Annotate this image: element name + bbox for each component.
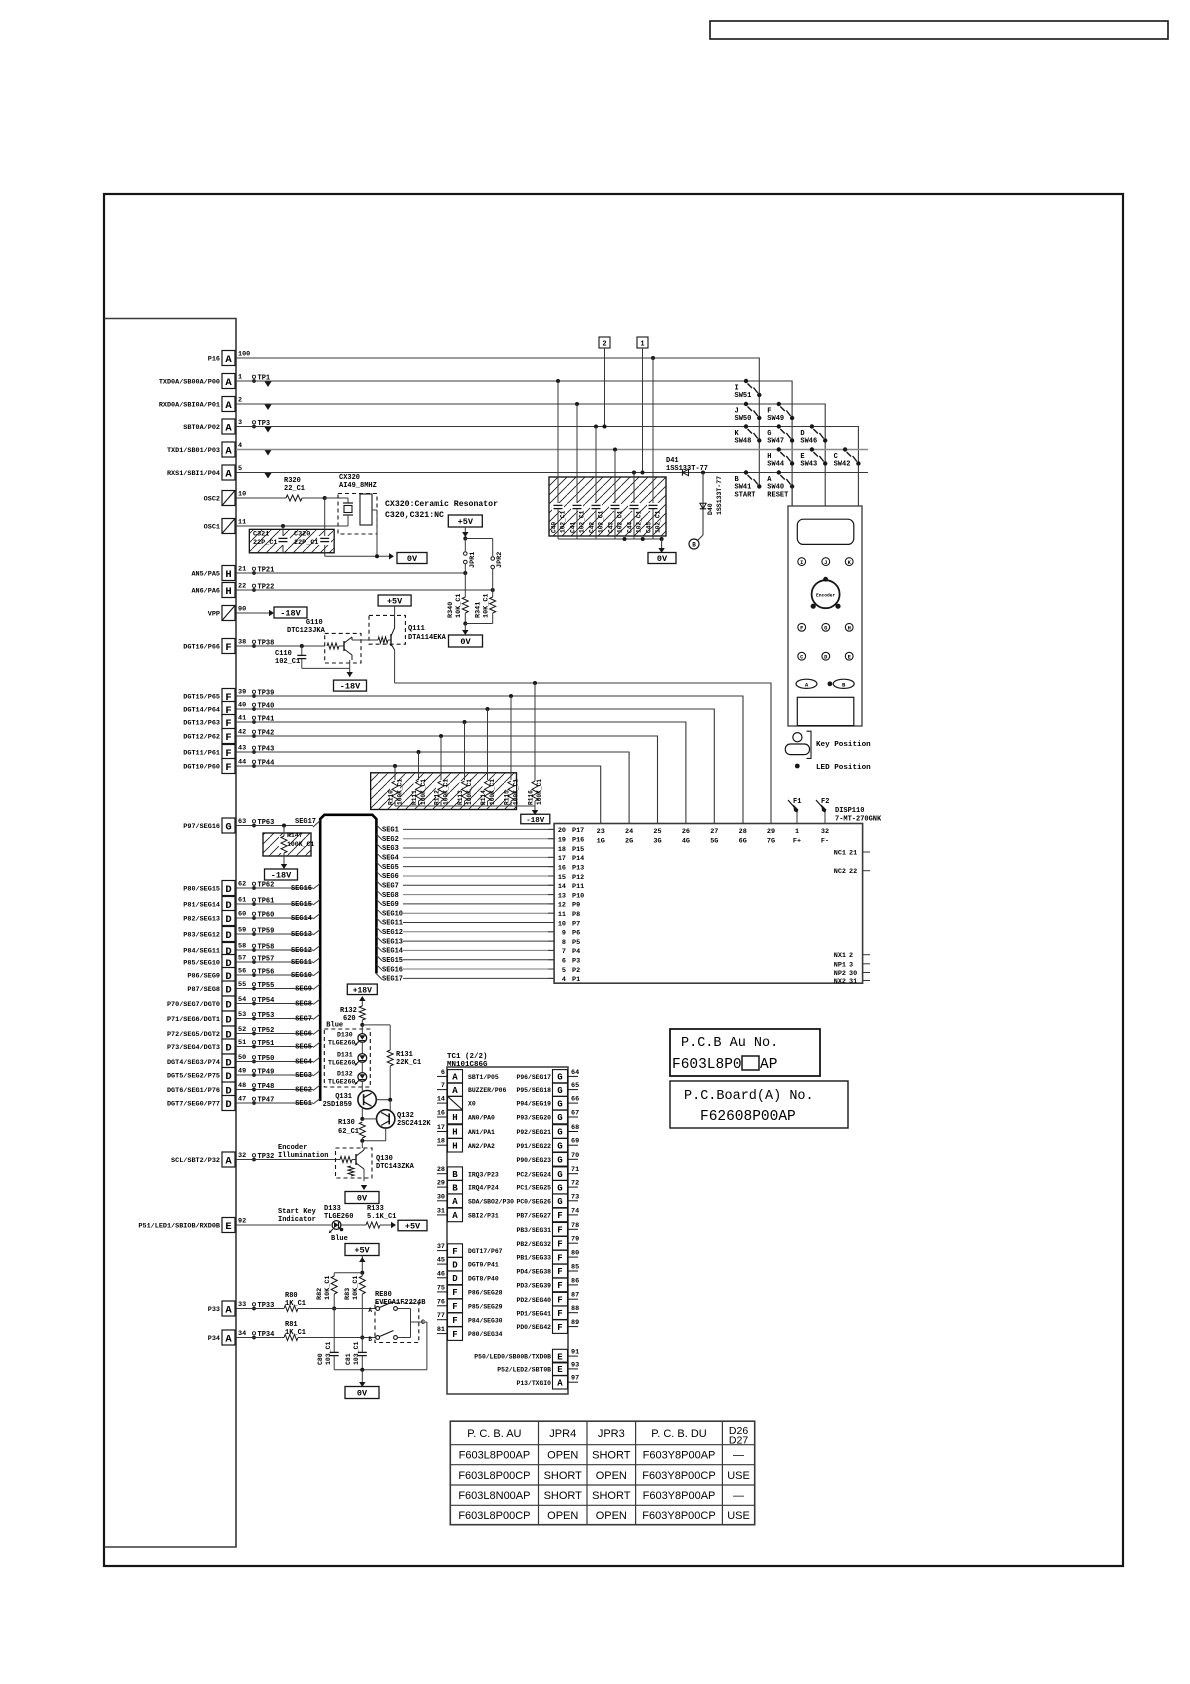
svg-text:AN0/PA0: AN0/PA0 (468, 1115, 495, 1122)
label start key indicator (278, 1208, 317, 1224)
svg-text:—: — (733, 1490, 744, 1502)
svg-text:P2: P2 (572, 967, 580, 975)
svg-text:32: 32 (238, 1152, 246, 1160)
svg-text:7-MT-270GNK: 7-MT-270GNK (835, 816, 882, 824)
svg-text:P. C. B. AU: P. C. B. AU (467, 1428, 521, 1440)
wire SEG15 into bus trunk (236, 900, 320, 910)
svg-text:2: 2 (849, 952, 853, 960)
wire SEG11 into bus trunk (236, 958, 320, 968)
svg-text:P80/SEG15: P80/SEG15 (183, 886, 220, 894)
svg-text:-18V: -18V (340, 682, 361, 692)
wire SEG2 bus exit to display pin (376, 834, 554, 844)
svg-text:78: 78 (571, 1222, 579, 1230)
IC1 pin 62 P80/SEG15 (183, 881, 274, 896)
IC1 pin 53 P71/SEG6/DGT1 (167, 1011, 274, 1026)
wire SEG14 into bus trunk (236, 914, 320, 924)
svg-text:R113: R113 (457, 790, 464, 805)
IC1 pin 2 RXD0A/SBI0A/P01 (159, 397, 242, 412)
power +5V box start key (398, 1220, 427, 1231)
svg-text:56: 56 (238, 968, 246, 976)
svg-text:F603L8P00AP: F603L8P00AP (459, 1450, 531, 1462)
IC1 pin 60 P82/SEG13 (183, 911, 274, 926)
power -18V box at VPP (274, 607, 307, 618)
svg-text:41: 41 (238, 715, 246, 723)
svg-text:Indicator: Indicator (278, 1216, 316, 1224)
svg-text:AN1/PA1: AN1/PA1 (468, 1129, 495, 1136)
svg-text:SEG2: SEG2 (382, 836, 399, 844)
svg-text:89: 89 (571, 1319, 579, 1327)
svg-text:P12: P12 (572, 874, 584, 882)
svg-text:P94/SEG19: P94/SEG19 (516, 1101, 551, 1108)
wire P00 row to matrix column 2 (236, 381, 792, 506)
svg-text:D: D (225, 1099, 231, 1111)
svg-text:P71/SEG6/DGT1: P71/SEG6/DGT1 (167, 1016, 220, 1024)
svg-text:C81: C81 (345, 1353, 352, 1365)
intersheet wire 2 (599, 337, 610, 429)
jumper JPR2 (465, 539, 504, 591)
svg-text:G: G (824, 626, 827, 632)
svg-text:43: 43 (238, 745, 246, 753)
IC1 pin 1 TXD0A/SB00A/P00 (159, 374, 270, 389)
svg-text:102_C1: 102_C1 (636, 510, 643, 533)
svg-text:H: H (848, 626, 851, 632)
svg-text:73: 73 (571, 1193, 579, 1201)
svg-text:F: F (800, 626, 803, 632)
capacitor bank C40-C45 (549, 356, 666, 553)
svg-text:61: 61 (238, 897, 246, 905)
svg-text:P.C.B Au No.: P.C.B Au No. (681, 1036, 778, 1051)
svg-text:F: F (557, 1211, 562, 1221)
legend key position (785, 731, 871, 758)
svg-text:OPEN: OPEN (547, 1450, 578, 1462)
ground rail to 0V under encoder (334, 1368, 427, 1387)
svg-text:G: G (557, 1128, 562, 1138)
svg-text:D: D (225, 930, 231, 942)
svg-text:14: 14 (437, 1096, 445, 1104)
svg-text:P5: P5 (572, 939, 580, 947)
svg-text:A: A (368, 1307, 372, 1314)
svg-text:SW43: SW43 (800, 461, 817, 469)
svg-text:74: 74 (571, 1207, 579, 1215)
svg-text:90: 90 (238, 606, 246, 614)
svg-text:SHORT: SHORT (592, 1490, 631, 1502)
svg-text:P85/SEG29: P85/SEG29 (468, 1303, 503, 1310)
resistor R133 (366, 1205, 396, 1228)
svg-text:P70/SEG7/DGT0: P70/SEG7/DGT0 (167, 1001, 220, 1009)
TC1 pin 71 PC2/SEG24 (516, 1166, 579, 1180)
svg-text:P3: P3 (572, 958, 580, 966)
svg-text:C42: C42 (589, 522, 596, 533)
svg-text:55: 55 (238, 981, 246, 989)
svg-text:9: 9 (562, 930, 566, 938)
wire SEG10 into bus trunk (236, 971, 320, 981)
svg-text:PB1/SEG33: PB1/SEG33 (516, 1255, 551, 1262)
svg-text:100K_C1: 100K_C1 (420, 779, 427, 805)
power +18V box (347, 984, 377, 995)
svg-text:50: 50 (238, 1054, 246, 1062)
wire SEG16 into bus trunk (236, 884, 320, 894)
svg-text:0V: 0V (460, 637, 471, 647)
svg-text:13: 13 (558, 892, 566, 900)
svg-text:62: 62 (238, 881, 246, 889)
svg-text:70: 70 (571, 1152, 579, 1160)
svg-text:0V: 0V (357, 1194, 368, 1204)
svg-text:F: F (557, 1281, 562, 1291)
svg-text:22: 22 (238, 583, 246, 591)
svg-text:PD4/SEG38: PD4/SEG38 (516, 1269, 551, 1276)
svg-text:G: G (557, 1183, 562, 1193)
wire SEG13 into bus trunk (236, 930, 320, 940)
IC1 pin 92 P51/LED1/SBIOB/RXD0B (138, 1218, 246, 1233)
svg-text:7: 7 (562, 948, 566, 956)
svg-text:44: 44 (238, 759, 246, 767)
svg-text:D: D (225, 1042, 231, 1054)
svg-text:Q111: Q111 (408, 625, 425, 633)
svg-text:DTC143ZKA: DTC143ZKA (376, 1163, 415, 1171)
svg-text:SEG16: SEG16 (382, 966, 403, 974)
svg-text:SEG5: SEG5 (295, 1044, 312, 1052)
wire AN5/PA5 row (236, 572, 465, 574)
svg-text:P13: P13 (572, 864, 584, 872)
svg-text:Q132: Q132 (397, 1112, 414, 1120)
svg-text:F: F (557, 1295, 562, 1305)
svg-text:18: 18 (558, 846, 566, 854)
IC1 pin 59 P83/SEG12 (183, 927, 274, 942)
svg-text:100K_C1: 100K_C1 (287, 841, 314, 848)
IC1 pin 49 DGT5/SEG2/P75 (167, 1068, 274, 1083)
svg-text:A: A (452, 1073, 458, 1083)
IC1 pin 55 P87/SEG8 (187, 981, 274, 996)
svg-text:6G: 6G (739, 838, 747, 846)
svg-text:SCL/SBT2/P32: SCL/SBT2/P32 (171, 1157, 220, 1165)
svg-text:47: 47 (238, 1096, 246, 1104)
LEDs D130 D131 D132 blue (324, 1022, 370, 1091)
resistor R132 (340, 996, 366, 1027)
svg-text:SHORT: SHORT (544, 1490, 583, 1502)
switch SW40 RESET (767, 470, 794, 499)
display pin rows P1-P17 (548, 827, 584, 984)
IC1 pin 58 P84/SEG11 (183, 943, 274, 958)
svg-text:A: A (225, 445, 232, 457)
svg-text:4: 4 (562, 976, 566, 984)
svg-text:PB2/SEG32: PB2/SEG32 (516, 1241, 551, 1248)
IC1 pin 61 P81/SEG14 (183, 897, 274, 912)
svg-text:F+: F+ (793, 838, 801, 846)
transistor G110 DTC123JKA (287, 619, 361, 668)
svg-text:G: G (557, 1156, 562, 1166)
svg-text:620: 620 (343, 1015, 356, 1023)
svg-text:P15: P15 (572, 846, 584, 854)
svg-text:DGT7/SEG0/P77: DGT7/SEG0/P77 (167, 1101, 220, 1109)
wire P02 row to matrix column 4 (236, 427, 858, 507)
svg-text:26: 26 (682, 828, 690, 836)
svg-text:P6: P6 (572, 930, 580, 938)
svg-text:5.1K_C1: 5.1K_C1 (367, 1213, 396, 1221)
wire P51 row (236, 1224, 331, 1226)
IC1 pin 39 DGT15/P65 (183, 689, 274, 704)
svg-text:65: 65 (571, 1082, 579, 1090)
svg-text:F603L8P00CP: F603L8P00CP (458, 1470, 530, 1482)
svg-text:100K_C1: 100K_C1 (397, 779, 404, 805)
IC1 pin 51 P73/SEG4/DGT3 (167, 1039, 274, 1054)
svg-text:H: H (225, 569, 231, 581)
svg-text:NX1: NX1 (834, 952, 846, 960)
svg-text:SW44: SW44 (767, 461, 784, 469)
wire P16 row to matrix column 1 (236, 358, 759, 487)
TC1 pin 6 SBT1/P05 (437, 1069, 499, 1083)
svg-text:SW41: SW41 (735, 484, 752, 492)
svg-text:76: 76 (437, 1298, 445, 1306)
svg-text:D: D (225, 984, 231, 996)
svg-text:P50/LED0/SB00B/TXD0B: P50/LED0/SB00B/TXD0B (474, 1354, 551, 1361)
svg-text:SEG1: SEG1 (382, 827, 399, 835)
svg-text:F603L8P0: F603L8P0 (672, 1057, 742, 1073)
svg-text:IRQ4/P24: IRQ4/P24 (468, 1185, 499, 1192)
svg-text:29: 29 (767, 828, 775, 836)
svg-text:R320: R320 (284, 477, 301, 485)
svg-text:34: 34 (238, 1330, 246, 1338)
TC1 pin 74 PB7/SEG27 (516, 1207, 579, 1221)
resistor R131 (362, 1025, 421, 1100)
svg-text:SEG15: SEG15 (382, 957, 403, 965)
svg-text:SW51: SW51 (735, 392, 752, 400)
wire DGT16 row (236, 645, 325, 647)
svg-text:7G: 7G (767, 838, 775, 846)
keypad rotary encoder (811, 577, 841, 609)
switch SW50 (735, 402, 762, 423)
svg-text:R115: R115 (504, 790, 511, 805)
ground 0V box near resonator (397, 553, 427, 564)
svg-text:SEG1: SEG1 (295, 1100, 312, 1108)
svg-text:P52/LED2/SBT0B: P52/LED2/SBT0B (497, 1367, 551, 1374)
svg-text:PC2/SEG24: PC2/SEG24 (516, 1171, 551, 1178)
svg-text:17: 17 (437, 1124, 445, 1132)
svg-text:G: G (557, 1197, 562, 1207)
svg-text:SHORT: SHORT (592, 1450, 631, 1462)
svg-text:SHORT: SHORT (544, 1470, 583, 1482)
svg-text:OPEN: OPEN (596, 1470, 627, 1482)
label P.C.Board(A) No. box (670, 1081, 848, 1128)
wire OSC1 row (236, 525, 348, 527)
svg-text:OSC2: OSC2 (204, 496, 220, 504)
svg-text:F603Y8P00AP: F603Y8P00AP (643, 1490, 716, 1502)
wire SEG15 bus exit to display pin (376, 955, 554, 965)
svg-text:F: F (557, 1253, 562, 1263)
svg-text:P16: P16 (208, 356, 220, 364)
svg-text:93: 93 (571, 1361, 579, 1369)
svg-text:P16: P16 (572, 837, 584, 845)
svg-text:SEG3: SEG3 (295, 1072, 312, 1080)
svg-text:11: 11 (558, 911, 566, 919)
svg-text:P82/SEG13: P82/SEG13 (183, 916, 220, 924)
page border frame (104, 194, 1123, 1566)
svg-text:8: 8 (562, 939, 566, 947)
wire SEG1 into bus trunk (236, 1099, 320, 1109)
svg-text:P14: P14 (572, 855, 584, 863)
svg-text:P4: P4 (572, 948, 580, 956)
svg-text:JPR1: JPR1 (469, 552, 477, 568)
label encoder illumination (278, 1144, 328, 1160)
transistor Q111 DTA114EKA (352, 606, 447, 683)
svg-text:F: F (452, 1330, 457, 1340)
label DISP110 7-MT-270GNK (835, 807, 882, 824)
svg-text:SEG17: SEG17 (295, 818, 316, 826)
svg-text:A: A (225, 1155, 232, 1167)
wire SEG5 into bus trunk (236, 1042, 320, 1052)
svg-text:H: H (225, 586, 231, 598)
svg-text:67: 67 (571, 1110, 579, 1118)
svg-text:22P_C1: 22P_C1 (294, 539, 318, 547)
svg-text:P91/SEG22: P91/SEG22 (516, 1143, 551, 1150)
svg-text:86: 86 (571, 1277, 579, 1285)
net marker on pin 4 line (265, 450, 272, 456)
wire SEG9 into bus trunk (236, 984, 320, 994)
svg-text:P.C.Board(A) No.: P.C.Board(A) No. (684, 1089, 814, 1104)
wire SEG11 bus exit to display pin (376, 918, 554, 928)
svg-text:DGT4/SEG3/P74: DGT4/SEG3/P74 (167, 1059, 220, 1067)
keypad keys C D E (798, 652, 853, 660)
svg-text:SEG6: SEG6 (295, 1031, 312, 1039)
wire P01 row to matrix column 3 (236, 404, 825, 506)
svg-text:SEG12: SEG12 (382, 929, 403, 937)
resistor R340 (447, 573, 468, 626)
IC1 pin 63 P97/SEG16 (183, 818, 274, 833)
svg-text:PB7/SEG27: PB7/SEG27 (516, 1213, 551, 1220)
svg-text:SW40: SW40 (767, 484, 784, 492)
svg-text:PD3/SEG39: PD3/SEG39 (516, 1283, 551, 1290)
svg-text:53: 53 (238, 1011, 246, 1019)
keypad display window (797, 519, 854, 544)
wire SEG6 into bus trunk (236, 1029, 320, 1039)
svg-text:NP1: NP1 (834, 961, 846, 969)
svg-text:22P_C1: 22P_C1 (253, 539, 277, 547)
svg-text:Q130: Q130 (376, 1155, 393, 1163)
svg-text:SW46: SW46 (800, 438, 817, 446)
IC1 pin 10 OSC2 (204, 491, 247, 506)
legend LED position (795, 764, 871, 772)
wire VPP to -18V (236, 610, 274, 616)
svg-text:19: 19 (558, 837, 566, 845)
resistor R83 (344, 1273, 365, 1340)
LED D133 blue (324, 1205, 366, 1243)
svg-text:R133: R133 (367, 1205, 384, 1213)
svg-text:RXD0A/SBI0A/P01: RXD0A/SBI0A/P01 (159, 402, 220, 410)
svg-text:27: 27 (710, 828, 718, 836)
svg-text:DGT5/SEG2/P75: DGT5/SEG2/P75 (167, 1073, 220, 1081)
svg-text:29: 29 (437, 1180, 445, 1188)
capacitor C81 (345, 1338, 367, 1370)
svg-text:+18V: +18V (353, 986, 372, 995)
TC1 pin 66 P94/SEG19 (516, 1096, 579, 1110)
ground -18V box under G110 (347, 668, 353, 677)
svg-text:58: 58 (238, 943, 246, 951)
svg-text:OPEN: OPEN (547, 1510, 578, 1522)
svg-text:P97/SEG16: P97/SEG16 (183, 823, 220, 831)
wire SCL/SBT2/P32 row (236, 1159, 340, 1161)
svg-text:F603Y8P00CP: F603Y8P00CP (642, 1470, 715, 1482)
wire P34 row with resistor R81 (236, 1321, 376, 1341)
svg-text:D: D (225, 914, 231, 926)
svg-text:F: F (452, 1247, 457, 1257)
svg-text:F603L8P00CP: F603L8P00CP (458, 1510, 530, 1522)
svg-text:NP2: NP2 (834, 970, 846, 978)
svg-text:3: 3 (238, 419, 242, 427)
svg-text:AP: AP (760, 1057, 777, 1073)
svg-text:R111: R111 (411, 790, 418, 805)
svg-text:Encoder: Encoder (816, 593, 836, 599)
IC1 pin 33 P33 (208, 1301, 275, 1316)
svg-text:SEG7: SEG7 (382, 882, 399, 890)
svg-text:DGT15/P65: DGT15/P65 (183, 694, 220, 702)
svg-text:P84/SEG30: P84/SEG30 (468, 1317, 503, 1324)
svg-text:P85/SEG10: P85/SEG10 (183, 960, 220, 968)
svg-text:38: 38 (238, 639, 246, 647)
svg-text:P84/SEG11: P84/SEG11 (183, 948, 220, 956)
svg-text:B: B (452, 1170, 458, 1180)
svg-text:SBT0A/P02: SBT0A/P02 (183, 424, 220, 432)
svg-text:PC1/SEG25: PC1/SEG25 (516, 1185, 551, 1192)
svg-text:AN6/PA6: AN6/PA6 (191, 588, 220, 596)
intersheet wire 1 (637, 337, 648, 475)
wire SEG9 bus exit to display pin (376, 899, 554, 909)
IC1 pin 48 DGT6/SEG1/P76 (167, 1082, 274, 1097)
svg-text:100K_C1: 100K_C1 (513, 779, 520, 805)
svg-text:4G: 4G (682, 838, 690, 846)
svg-text:59: 59 (238, 927, 246, 935)
wire SEG12 bus exit to display pin (376, 927, 554, 937)
svg-text:P7: P7 (572, 920, 580, 928)
svg-text:A: A (225, 377, 232, 389)
svg-text:DGT16/P66: DGT16/P66 (183, 644, 220, 652)
svg-text:P80/SEG34: P80/SEG34 (468, 1331, 503, 1338)
svg-text:2: 2 (238, 397, 242, 405)
svg-text:F: F (557, 1226, 562, 1236)
TC1 pin 65 P95/SEG18 (516, 1082, 579, 1096)
IC1 pin 41 DGT13/P63 (183, 715, 274, 730)
svg-text:P93/SEG20: P93/SEG20 (516, 1115, 551, 1122)
IC1 pin 38 DGT16/P66 (183, 639, 274, 654)
svg-text:G: G (557, 1086, 562, 1096)
svg-text:A: A (225, 1304, 232, 1316)
svg-text:24: 24 (625, 828, 633, 836)
svg-text:F: F (452, 1302, 457, 1312)
TC1 pin 67 P93/SEG20 (516, 1110, 579, 1124)
svg-text:33: 33 (238, 1301, 246, 1309)
svg-text:23: 23 (597, 828, 605, 836)
svg-text:A: A (225, 1333, 232, 1345)
filament F2 arrow (816, 798, 829, 824)
svg-text:R110: R110 (388, 790, 395, 805)
IC1 pin 57 P85/SEG10 (183, 955, 274, 970)
svg-text:97: 97 (571, 1375, 579, 1383)
TC1 pin 77 P84/SEG30 (437, 1312, 503, 1326)
svg-text:100K_C1: 100K_C1 (466, 779, 473, 805)
jumper JPR1 (462, 527, 477, 573)
TC1 pin 14 X0 (437, 1096, 476, 1110)
svg-text:PD1/SEG41: PD1/SEG41 (516, 1310, 551, 1317)
svg-text:F-: F- (821, 838, 829, 846)
wire DGT13 row to display column (236, 722, 686, 824)
filament F1 arrow (788, 798, 801, 824)
svg-text:SEG9: SEG9 (382, 901, 399, 909)
svg-text:5G: 5G (710, 838, 718, 846)
wire SEG6 bus exit to display pin (376, 871, 554, 881)
svg-text:D: D (225, 1014, 231, 1026)
svg-text:39: 39 (238, 689, 246, 697)
svg-text:22_C1: 22_C1 (284, 485, 305, 493)
svg-text:P. C. B. DU: P. C. B. DU (651, 1428, 706, 1440)
TC1 pin 87 PD2/SEG40 (516, 1292, 579, 1306)
